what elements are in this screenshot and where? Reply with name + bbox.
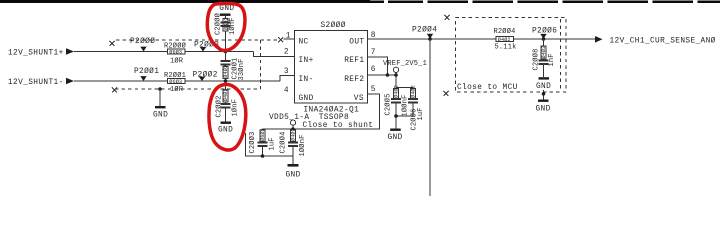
node junction cap bottom xyxy=(261,154,265,158)
testpoint P2006 xyxy=(532,27,557,39)
capacitor C2001 xyxy=(221,52,246,82)
svg-text:12V_SHUNT1-: 12V_SHUNT1- xyxy=(8,79,64,87)
svg-text:IN-: IN- xyxy=(299,76,314,84)
wire OUT net xyxy=(368,38,596,40)
svg-text:C2ØØ3: C2ØØ3 xyxy=(248,131,257,153)
dashed DNP outline top xyxy=(116,40,279,89)
capacitor C2004 xyxy=(279,128,308,156)
wire down to page edge xyxy=(429,39,431,196)
svg-text:NC: NC xyxy=(299,38,309,46)
testpoint P2003 xyxy=(194,40,219,51)
resistor R2001 xyxy=(164,71,186,94)
svg-text:IN+: IN+ xyxy=(299,57,314,65)
svg-text:GND: GND xyxy=(153,111,168,119)
node junction REF tie xyxy=(386,73,390,77)
ground below C2002 xyxy=(218,122,233,135)
svg-text:5: 5 xyxy=(371,86,376,94)
highlight ellipse around C2002 xyxy=(209,84,246,150)
svg-text:P2ØØ4: P2ØØ4 xyxy=(412,26,437,35)
svg-text:Ø4Ø2: Ø4Ø2 xyxy=(410,85,417,98)
op-amp U S2000 INA240A2-Q1 xyxy=(284,21,376,130)
op-amp body xyxy=(295,31,368,104)
svg-text:GND: GND xyxy=(388,134,403,142)
svg-text:1ØØnF: 1ØØnF xyxy=(401,94,410,116)
svg-text:REF2: REF2 xyxy=(344,76,364,84)
testpoint P2002 xyxy=(193,70,218,81)
wire IN+ net xyxy=(74,52,295,57)
port 12V_SHUNT1+ xyxy=(8,48,74,57)
node junction cap gnd xyxy=(394,114,398,118)
ground above C2000 xyxy=(219,5,234,16)
svg-text:GND: GND xyxy=(536,105,551,113)
testpoint P2001 xyxy=(134,67,159,81)
x mark MCU box top xyxy=(445,15,450,20)
ground below C2003 C2004 xyxy=(286,164,301,180)
x mark left bottom xyxy=(112,87,117,92)
wire REF2 xyxy=(368,74,388,76)
svg-text:C2ØØ4: C2ØØ4 xyxy=(279,131,288,153)
ground below C2008 xyxy=(536,77,551,91)
svg-text:P2ØØ2: P2ØØ2 xyxy=(193,70,218,79)
node junction OUT / down wire xyxy=(428,37,432,41)
svg-text:VS: VS xyxy=(354,95,364,103)
resistor body R2004 xyxy=(496,37,514,42)
svg-text:1ØØnF: 1ØØnF xyxy=(298,134,307,156)
capacitor C2006 xyxy=(409,85,425,130)
svg-text:C2ØØ5: C2ØØ5 xyxy=(384,93,393,115)
resistor R2004 xyxy=(494,27,517,51)
svg-text:GND: GND xyxy=(219,5,234,13)
svg-text:6: 6 xyxy=(371,66,376,74)
wire REF1 xyxy=(368,57,388,75)
dashed box close to MCU xyxy=(456,18,567,93)
wire IN- net xyxy=(74,76,295,82)
svg-text:4: 4 xyxy=(284,87,289,95)
wire REF to caps xyxy=(388,75,414,88)
svg-text:Close to MCU: Close to MCU xyxy=(457,84,518,92)
x mark left top xyxy=(110,41,115,46)
resistor body R2000 xyxy=(168,49,186,54)
node junction VDD rail C2004 xyxy=(291,127,295,131)
wire caps to ground xyxy=(396,116,413,129)
node junction OUT / C2008 xyxy=(542,37,546,41)
capacitor C2002 xyxy=(214,81,239,122)
dashed DNP line bottom xyxy=(115,88,261,90)
wire VS to VDD5 rail xyxy=(263,94,380,129)
svg-text:1uF: 1uF xyxy=(417,107,425,120)
svg-text:Ø4Ø2: Ø4Ø2 xyxy=(290,128,297,141)
ground below VREF caps xyxy=(388,129,403,142)
highlight ellipse around C2000 xyxy=(207,3,245,50)
svg-text:1ØnF: 1ØnF xyxy=(231,99,240,117)
capacitor C2005 xyxy=(384,85,410,116)
svg-text:P2ØØØ: P2ØØØ xyxy=(130,37,155,46)
capacitor C2000 xyxy=(214,13,237,52)
svg-text:2: 2 xyxy=(284,49,289,57)
node junction gnd tie xyxy=(542,90,546,100)
wire cap bottoms xyxy=(246,133,294,164)
svg-text:Ø4Ø2: Ø4Ø2 xyxy=(393,85,400,98)
svg-text:GND: GND xyxy=(536,83,551,91)
svg-text:Ø4Ø2: Ø4Ø2 xyxy=(540,46,547,59)
svg-text:Ø4Ø2: Ø4Ø2 xyxy=(222,65,229,78)
svg-text:1ØnF: 1ØnF xyxy=(228,17,237,35)
svg-text:7: 7 xyxy=(371,49,376,57)
net port VDD5_1-A circle xyxy=(290,120,295,129)
pin 1 NC stub with x xyxy=(278,37,294,42)
svg-text:C2ØØØ: C2ØØØ xyxy=(214,13,223,35)
svg-text:1nF: 1nF xyxy=(548,53,556,66)
svg-text:REF1: REF1 xyxy=(344,57,364,65)
svg-text:C2ØØ8: C2ØØ8 xyxy=(532,48,541,70)
svg-text:Ø6Ø3: Ø6Ø3 xyxy=(259,128,266,141)
ground below DNP line xyxy=(153,106,168,119)
svg-text:1ØR: 1ØR xyxy=(170,56,184,65)
capacitor C2003 xyxy=(248,128,277,156)
node junction IN- / C2001 / C2002 xyxy=(224,79,228,83)
svg-text:GND: GND xyxy=(286,172,301,180)
x mark MCU box bottom xyxy=(444,91,449,96)
svg-text:3: 3 xyxy=(284,68,289,76)
ground below MCU box xyxy=(536,100,551,114)
svg-text:VDD5_1-A: VDD5_1-A xyxy=(269,114,309,122)
svg-text:12V_CH1_CUR_SENSE_ANØ: 12V_CH1_CUR_SENSE_ANØ xyxy=(610,37,716,46)
svg-text:Ø6Ø3: Ø6Ø3 xyxy=(169,49,182,56)
svg-text:GND: GND xyxy=(218,126,233,134)
svg-text:R2ØØ4: R2ØØ4 xyxy=(494,27,516,36)
resistor R2000 xyxy=(164,41,186,65)
svg-text:5.11k: 5.11k xyxy=(495,44,517,52)
node junction VREF xyxy=(394,73,398,77)
testpoint P2004 xyxy=(412,26,437,39)
svg-text:1uF: 1uF xyxy=(269,137,277,150)
svg-text:Ø4Ø2: Ø4Ø2 xyxy=(498,36,511,43)
svg-text:12V_SHUNT1+: 12V_SHUNT1+ xyxy=(8,50,64,58)
port 12V_SHUNT1- xyxy=(8,78,74,87)
node junction IN+ / C2000 / C2001 xyxy=(224,50,228,54)
svg-text:C2ØØ2: C2ØØ2 xyxy=(214,95,223,117)
svg-text:Ø6Ø3: Ø6Ø3 xyxy=(169,78,182,85)
svg-text:VREF_2V5_1: VREF_2V5_1 xyxy=(383,60,427,68)
port arrow 12V_CH1_CUR_SENSE_AN0 xyxy=(595,36,716,46)
svg-text:P2ØØ1: P2ØØ1 xyxy=(134,67,159,76)
svg-text:S2ØØØ: S2ØØØ xyxy=(321,21,346,30)
svg-text:33ØnF: 33ØnF xyxy=(237,58,246,80)
border bar top xyxy=(0,0,720,4)
capacitor C2008 xyxy=(532,39,557,77)
wire stub to ground xyxy=(159,89,161,106)
svg-text:GND: GND xyxy=(299,95,314,103)
net port VREF_2V5_1 xyxy=(383,60,427,75)
resistor body R2001 xyxy=(168,78,186,83)
svg-text:OUT: OUT xyxy=(349,38,364,46)
node junction on DNP line xyxy=(158,87,162,91)
svg-text:TSSOP8: TSSOP8 xyxy=(319,114,349,122)
testpoint P2000 xyxy=(130,37,155,51)
